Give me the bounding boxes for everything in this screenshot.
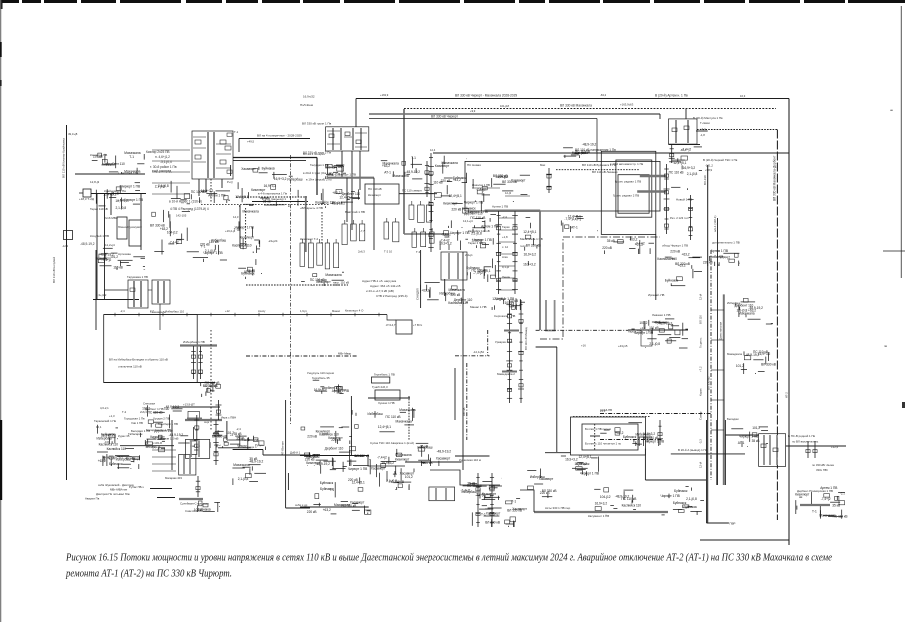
svg-text:220 кВ: 220 кВ — [331, 438, 341, 442]
feeder chain C6 — [664, 164, 670, 234]
svg-text:35 кВ: 35 кВ — [111, 192, 119, 196]
svg-text:Хив 1 ПВ: Хив 1 ПВ — [131, 421, 143, 425]
svg-text:16,9+3,2: 16,9+3,2 — [101, 434, 114, 438]
svg-text:Кизилюрт: Кизилюрт — [306, 461, 321, 465]
wire ctl long drop — [556, 347, 558, 452]
wire drop to Chiryurt bank — [355, 99, 357, 128]
svg-text:+9,9: +9,9 — [470, 109, 476, 113]
svg-text:Чирюрт 1 ПВ: Чирюрт 1 ПВ — [473, 238, 492, 242]
bus ctl 1 — [504, 330, 519, 332]
bus Izberbash — [180, 344, 217, 346]
svg-text:с. 12: с. 12 — [502, 245, 509, 249]
svg-text:Буйнакск: Буйнакск — [320, 487, 334, 491]
substation group lk rows2 — [154, 238, 227, 262]
bus Akusha — [644, 321, 646, 329]
feeder chain C2 — [428, 153, 434, 252]
substation group Kizlyar south — [150, 181, 190, 244]
wire ctl tie drop — [487, 330, 489, 356]
wire bl v1 — [226, 421, 228, 440]
svg-text:Т-2 10: Т-2 10 — [384, 250, 393, 254]
svg-text:220 кВ: 220 кВ — [602, 246, 612, 250]
substation bank S3 — [429, 487, 455, 501]
svg-text:Махачкала: Махачкала — [242, 438, 258, 442]
wire drop d — [140, 194, 142, 251]
svg-text:Гергебиль 1 ПВ: Гергебиль 1 ПВ — [374, 373, 395, 377]
svg-text:Кизилюрт: Кизилюрт — [395, 458, 410, 462]
svg-text:104-j12: 104-j12 — [600, 495, 611, 499]
svg-text:-11,2+j4: -11,2+j4 — [104, 243, 115, 247]
substation group ct left — [232, 210, 260, 253]
svg-text:220 кВ: 220 кВ — [325, 166, 335, 170]
svg-text:16,9+3,2: 16,9+3,2 — [115, 199, 128, 203]
svg-text:220 кВ: 220 кВ — [540, 491, 550, 495]
svg-text:+1,3: +1,3 — [109, 414, 115, 418]
svg-text:Леваши 1 ПВ: Леваши 1 ПВ — [652, 313, 670, 317]
svg-text:Дербент 110: Дербент 110 — [342, 192, 361, 196]
wire staircase bc2 — [430, 470, 500, 485]
svg-text:Курахская 110 м: Курахская 110 м — [459, 458, 481, 462]
svg-text:ПС 110 кВ: ПС 110 кВ — [205, 381, 220, 385]
svg-text:АТ-1: АТ-1 — [575, 218, 582, 222]
svg-text:Дербент 110: Дербент 110 — [325, 447, 344, 451]
node tick izb 3 — [186, 313, 188, 317]
wire rail k5 — [252, 201, 308, 203]
svg-text:Кизилюрт: Кизилюрт — [368, 193, 382, 197]
svg-text:Избербаш: Избербаш — [368, 412, 384, 416]
node tick izb 7 — [282, 313, 284, 317]
svg-text:2,1-j0,8: 2,1-j0,8 — [649, 342, 660, 346]
svg-text:Каспийск 110: Каспийск 110 — [107, 447, 127, 451]
svg-text:Махачкала: Махачкала — [449, 288, 465, 292]
node tick izb 6 — [258, 313, 260, 317]
svg-text:220 кВ: 220 кВ — [305, 458, 315, 462]
svg-text:Авария Пв: Авария Пв — [85, 497, 100, 501]
bus Chiryurt 110 — [328, 177, 374, 179]
box Khiv — [186, 439, 210, 458]
svg-text:+98,9: +98,9 — [705, 168, 713, 172]
substation bank small — [441, 252, 467, 280]
substation bank PS-V — [759, 434, 786, 467]
substation group bc 2 — [461, 478, 503, 500]
node tick izb 11 — [378, 313, 380, 317]
wire PVR tie — [707, 522, 729, 524]
svg-text:Чирюрт 1 ПВ: Чирюрт 1 ПВ — [661, 494, 680, 498]
wire lk stub 3 — [152, 182, 190, 184]
svg-text:Хасавюрт: Хасавюрт — [371, 467, 386, 471]
svg-text:Гоцатль: Гоцатль — [699, 337, 703, 348]
wire frame B path — [540, 237, 660, 339]
svg-text:ПС 110 кВ: ПС 110 кВ — [669, 171, 684, 175]
svg-text:В (20-й) Артем н. 1 Пв: В (20-й) Артем н. 1 Пв — [655, 94, 688, 98]
svg-text:Мах: Мах — [540, 163, 546, 167]
svg-text:Махачкала: Махачкала — [395, 453, 411, 457]
substation group C2 side — [433, 156, 467, 200]
substation group lk south2 — [191, 189, 230, 203]
svg-text:Кизилюрт Т-2: Кизилюрт Т-2 — [300, 237, 318, 241]
box frame F outer — [601, 151, 656, 234]
wire ct drop 2 — [444, 279, 446, 296]
svg-text:ВЛ 330 кВ: ВЛ 330 кВ — [485, 521, 500, 525]
wire drop to bank D 2 — [659, 114, 661, 119]
svg-text:12,4+j5,1: 12,4+j5,1 — [378, 425, 391, 429]
wire drop f — [171, 420, 173, 470]
wire frame F drop — [655, 234, 657, 300]
load feeder row 3 — [409, 201, 432, 223]
substation group mid — [325, 164, 346, 179]
transformer bars Khiv — [191, 441, 199, 457]
wire ctl tie — [455, 355, 490, 357]
wire bc rail 3 — [300, 506, 369, 508]
svg-text:-12,2: -12,2 — [62, 244, 69, 248]
bus Derbent — [185, 419, 222, 421]
svg-text:-7,4+j2: -7,4+j2 — [635, 242, 645, 246]
wire lk stub 1 — [152, 160, 190, 162]
svg-text:Буйнакск: Буйнакск — [674, 489, 688, 493]
svg-text:Хасавюрт: Хасавюрт — [512, 507, 527, 511]
svg-text:Хунзах 1 ПВ: Хунзах 1 ПВ — [378, 401, 395, 405]
svg-text:Кизилюрт 4 О: Кизилюрт 4 О — [345, 309, 364, 313]
wire drop e — [95, 250, 97, 330]
box substation S1 — [365, 184, 399, 204]
svg-text:12,8-j3: 12,8-j3 — [90, 180, 100, 184]
svg-text:-48,9-19,2: -48,9-19,2 — [745, 353, 760, 357]
substation group A east south — [561, 214, 598, 232]
svg-text:Хасавюрт: Хасавюрт — [486, 512, 501, 516]
svg-text:-24+j24: -24+j24 — [268, 239, 278, 243]
svg-text:ПзЛ-Жем: ПзЛ-Жем — [300, 103, 313, 107]
svg-text:-0,8: -0,8 — [104, 440, 109, 444]
box load L2 — [129, 220, 141, 246]
svg-text:Манас 1 ПВ: Манас 1 ПВ — [470, 305, 487, 309]
svg-text:Кизилюрт: Кизилюрт — [435, 164, 450, 168]
svg-text:Буйнакск: Буйнакск — [576, 462, 590, 466]
substation group bl extra — [104, 447, 140, 469]
substation group A south — [470, 214, 498, 248]
svg-text:-48,9-19,2: -48,9-19,2 — [437, 449, 452, 453]
svg-text:-7,4+j2: -7,4+j2 — [377, 456, 387, 460]
wire VL-330 third tie — [369, 113, 660, 115]
svg-text:110 кВ: 110 кВ — [433, 181, 443, 185]
svg-text:Дербент-Приморская 1 ПВ: Дербент-Приморская 1 ПВ — [797, 489, 833, 493]
wire bl rail 4 — [263, 454, 310, 456]
svg-text:Кизилюрт: Кизилюрт — [795, 493, 810, 497]
bus 330 link vertical — [403, 109, 405, 234]
substation group tE mid — [736, 350, 776, 374]
feeder chain C5b — [518, 300, 524, 403]
svg-text:ПС 110 кВ: ПС 110 кВ — [386, 415, 401, 419]
svg-text:Икра с ПВН: Икра с ПВН — [221, 416, 236, 420]
load feeder row 1 — [342, 220, 365, 245]
svg-text:Снегокая: Снегокая — [143, 402, 155, 406]
svg-text:Избербаш 110: Избербаш 110 — [165, 310, 185, 314]
svg-text:Артем 1 ПВ: Артем 1 ПВ — [481, 225, 498, 229]
svg-text:Курах 35: Курах 35 — [118, 434, 130, 438]
feeder chain C19 — [216, 400, 222, 420]
wire ct dash — [321, 212, 323, 245]
node tick izb 10 — [354, 313, 356, 317]
bus Primorsk — [800, 504, 830, 506]
svg-text:+63,2: +63,2 — [682, 253, 690, 257]
svg-text:+163,9: +163,9 — [380, 93, 389, 97]
svg-text:Сулейман-Стальская: Сулейман-Стальская — [180, 502, 209, 506]
substation group bc top-left — [301, 427, 352, 444]
svg-text:-7,4+j2: -7,4+j2 — [564, 217, 574, 221]
feeder chain C5 — [512, 211, 518, 294]
svg-text:ВЛ-330: ВЛ-330 — [703, 175, 707, 185]
wire trunk dash-dot — [710, 250, 712, 480]
svg-text:Ахты: Ахты — [214, 443, 221, 447]
svg-text:-7,7: -7,7 — [360, 229, 365, 233]
svg-text:Махачкала: Махачкала — [325, 273, 341, 277]
substation Chiryurt 330 bank — [326, 127, 369, 151]
wire Gunib drop 2 — [408, 396, 410, 440]
substation group Derbent — [145, 435, 165, 452]
bus corner path — [546, 300, 555, 331]
wire Gunib drop — [350, 396, 352, 455]
wire bl ticks 3 — [152, 470, 176, 472]
svg-text:Избербаш 1 ПВ: Избербаш 1 ПВ — [183, 340, 205, 344]
svg-text:ВЛ 330 кВ Махачкала-Дербент: ВЛ 330 кВ Махачкала-Дербент — [773, 155, 777, 201]
wire to Tarumovka — [105, 289, 129, 291]
svg-text:Т-3: Т-3 — [416, 250, 421, 254]
substation group bl mid2 — [232, 457, 266, 485]
svg-text:Ачису: Ачису — [258, 309, 266, 313]
substation group c-mid — [301, 272, 344, 286]
svg-text:220 кВ: 220 кВ — [452, 207, 462, 211]
feeder chain C17 — [813, 441, 817, 458]
svg-text:ВЛ 330 кВ: ВЛ 330 кВ — [355, 454, 370, 458]
substation group Khunzakh — [352, 408, 416, 432]
svg-text:Чирюрт 1 ПВ: Чирюрт 1 ПВ — [580, 472, 599, 476]
wire dashdot Levashi tie — [536, 329, 628, 331]
substation group br top — [600, 423, 664, 446]
bus Grozny A — [640, 175, 667, 177]
svg-text:Кизилюрт: Кизилюрт — [126, 457, 141, 461]
wire Levashi tie — [628, 329, 688, 331]
substation group left lower — [95, 248, 145, 270]
svg-text:21,6: 21,6 — [600, 409, 606, 413]
wire bl rail 6 — [150, 488, 172, 490]
svg-text:Чирюрт 1 ПВ: Чирюрт 1 ПВ — [450, 231, 469, 235]
wire bc rail 1 — [300, 455, 369, 457]
svg-text:+2,4: +2,4 — [700, 127, 706, 131]
svg-text:себя и др: себя и др — [295, 503, 308, 507]
box load L1 — [117, 217, 127, 239]
svg-text:35 кВ: 35 кВ — [420, 444, 428, 448]
svg-text:ВЛ на 4 поперечное - 2028-2029: ВЛ на 4 поперечное - 2028-2029 — [257, 133, 302, 137]
svg-text:Т-1: Т-1 — [511, 500, 516, 504]
svg-text:а/я-1 (118-1): а/я-1 (118-1) — [713, 216, 717, 232]
svg-text:+63,2: +63,2 — [748, 309, 756, 313]
svg-text:-2,4: -2,4 — [502, 215, 507, 219]
svg-text:МВт-МВА-ме: МВт-МВА-ме — [110, 488, 128, 492]
substation group Primorsk — [795, 486, 847, 519]
svg-text:9,1-j2: 9,1-j2 — [502, 265, 509, 269]
svg-text:16,3: 16,3 — [740, 94, 746, 98]
svg-text:ПВР: ПВР — [730, 522, 736, 526]
svg-text:+49,5: +49,5 — [247, 139, 255, 143]
svg-text:16,9+3,2: 16,9+3,2 — [382, 461, 395, 465]
wire drop b — [104, 194, 106, 301]
svg-text:12-j3: 12-j3 — [505, 191, 511, 195]
wire rail k1 drop — [238, 139, 240, 153]
svg-text:110 кВ: 110 кВ — [209, 240, 219, 244]
svg-text:ВЛ 330 кВ Чирюрт - Махачкала: ВЛ 330 кВ Чирюрт - Махачкала 2028-2029 — [455, 94, 517, 98]
svg-text:101,2: 101,2 — [142, 407, 150, 411]
substation group below bank — [421, 283, 473, 307]
box frame G — [104, 315, 198, 383]
svg-text:АТ-2: АТ-2 — [784, 392, 788, 398]
svg-text:Сергокала 1 ПВ: Сергокала 1 ПВ — [494, 314, 515, 318]
feeder chain C7 — [669, 144, 675, 163]
svg-text:Чирюрт 1 ПВ: Чирюрт 1 ПВ — [338, 173, 356, 177]
svg-text:Буйнакск: Буйнакск — [320, 481, 334, 485]
svg-text:+7,2: +7,2 — [699, 366, 703, 372]
svg-text:Т-1: Т-1 — [201, 244, 206, 248]
svg-text:В (20-й) Махтула 1 Пв: В (20-й) Махтула 1 Пв — [693, 116, 723, 120]
svg-text:16,9+3,2: 16,9+3,2 — [683, 166, 696, 170]
svg-text:Адрес: 364 об 142+15: Адрес: 364 об 142+15 — [370, 284, 401, 288]
svg-text:Тарумовка 1 ПВ: Тарумовка 1 ПВ — [127, 275, 148, 279]
substation group Levashi — [632, 319, 689, 348]
svg-text:Реч. 2 123 тол: Реч. 2 123 тол — [670, 216, 689, 220]
svg-text:Махачкала: Махачкала — [396, 420, 412, 424]
svg-text:Агач: Агач — [502, 255, 508, 259]
svg-text:-3,4+j1,2: -3,4+j1,2 — [104, 162, 116, 166]
wire c45 rung 0 — [499, 217, 515, 219]
svg-text:Артем 1 ПВ: Артем 1 ПВ — [492, 205, 508, 209]
substation group D lower — [703, 249, 740, 266]
substation group C5 side — [523, 218, 540, 267]
substation group D east2 — [669, 147, 702, 190]
feeder chain C18 — [194, 415, 200, 455]
wire bl trunk v — [285, 400, 287, 508]
wire dashed cross tie — [201, 204, 330, 206]
svg-text:220 кВ: 220 кВ — [307, 510, 317, 514]
svg-text:49,3+j8: 49,3+j8 — [68, 132, 78, 136]
svg-text:ВЛ 330 кВ Чирюрт: ВЛ 330 кВ Чирюрт — [431, 115, 458, 119]
svg-text:ВЛ 330 кВ: ВЛ 330 кВ — [675, 262, 690, 266]
wire Botlikh T bar — [590, 435, 600, 437]
substation group A-east — [235, 166, 303, 207]
svg-text:ПС 110 кВ: ПС 110 кВ — [368, 187, 382, 191]
substation group bl far2 — [97, 443, 134, 466]
svg-text:Тарки: Тарки — [502, 225, 510, 229]
svg-text:+7 Вт/ч: +7 Вт/ч — [413, 323, 423, 327]
feeder chain C9 — [191, 346, 196, 379]
scan edge left dark segment — [0, 420, 2, 500]
svg-text:Т-1: Т-1 — [129, 155, 134, 159]
wire trunk f — [716, 420, 718, 485]
svg-text:по 330 кВт da-ма: по 330 кВт da-ма — [812, 463, 834, 467]
svg-text:101,2: 101,2 — [505, 301, 513, 305]
wire lk b — [245, 208, 247, 247]
svg-text:Самур: Самур — [699, 411, 703, 420]
svg-text:Чирюрт 1 ПВ: Чирюрт 1 ПВ — [348, 467, 367, 471]
svg-text:ВЛ 330 кВ: ВЛ 330 кВ — [502, 180, 517, 184]
wire c45 rung 3 — [499, 253, 515, 255]
feeder chain C8 — [687, 195, 693, 240]
svg-text:12-j4: 12-j4 — [699, 293, 703, 300]
wire rail k4 — [236, 196, 307, 198]
scan edge top — [0, 0, 905, 9]
svg-text:Каспийск 110: Каспийск 110 — [657, 257, 677, 261]
wire trunk Chirkey south b — [706, 420, 708, 523]
svg-text:Дагестанская: Дагестанская — [719, 322, 723, 340]
wire E tie — [645, 479, 706, 481]
substation group left-top — [92, 151, 145, 174]
wire Kizlyar drop c — [221, 179, 223, 188]
svg-text:4,6-2,1: 4,6-2,1 — [100, 406, 109, 410]
svg-text:Грозн. радиал 2 ПВ: Грозн. радиал 2 ПВ — [613, 194, 639, 198]
wire frame G bottom — [104, 382, 216, 384]
svg-text:2,1-j0,8: 2,1-j0,8 — [687, 172, 698, 176]
svg-text:Ботлих 1 ПВ перем: Ботлих 1 ПВ перем — [585, 427, 611, 431]
svg-text:В (20-й) Черкей ГЭС 1 Пв: В (20-й) Черкей ГЭС 1 Пв — [703, 158, 738, 162]
svg-text:2,1-j0,8: 2,1-j0,8 — [116, 206, 127, 210]
svg-text:Кизилюрт: Кизилюрт — [316, 430, 331, 434]
svg-text:Кизилюрт: Кизилюрт — [251, 188, 266, 192]
wire bl rail 5 — [286, 507, 310, 509]
wire trunk rung 4 — [711, 429, 724, 431]
wire bc rail 4 — [545, 452, 571, 454]
svg-text:Махачкала: Махачкала — [233, 463, 249, 467]
feeder chain C16 — [806, 441, 810, 458]
svg-text:Уркарах: Уркарах — [495, 340, 506, 344]
svg-text:Т-связи: Т-связи — [700, 121, 710, 125]
svg-text:+63,2: +63,2 — [421, 289, 429, 293]
wire edge stub — [883, 250, 905, 252]
svg-text:Магарам 403: Магарам 403 — [165, 476, 182, 480]
wire Chiryurt feeder a — [341, 151, 343, 178]
svg-text:+2,2: +2,2 — [640, 326, 646, 330]
box Gunib 2 — [375, 390, 400, 400]
svg-text:ПС 110 кВ: ПС 110 кВ — [389, 480, 404, 484]
wire drop c — [110, 194, 112, 216]
svg-text:Курах: Курах — [699, 388, 703, 396]
svg-text:35 кВ: 35 кВ — [832, 504, 840, 508]
substation group Kasumkent — [472, 499, 527, 527]
svg-text:12,4+j5,1: 12,4+j5,1 — [449, 194, 462, 198]
svg-text:ВЛ 330 кВ грозн 1 Пв: ВЛ 330 кВ грозн 1 Пв — [302, 122, 332, 126]
substation group C bottom — [492, 297, 525, 310]
svg-text:12,4+j5,1: 12,4+j5,1 — [477, 269, 490, 273]
wire ct rail 1 — [246, 284, 348, 286]
svg-text:16,9+3,2: 16,9+3,2 — [495, 175, 508, 179]
substation group bc mid — [315, 458, 367, 499]
svg-text:Каспийск 110: Каспийск 110 — [232, 243, 252, 247]
wire right trunk A — [788, 99, 790, 546]
svg-text:не: не — [890, 108, 894, 112]
svg-text:12,4+j5,1: 12,4+j5,1 — [523, 230, 536, 234]
wire bl corner — [262, 450, 264, 456]
substation group center-b — [443, 201, 488, 228]
svg-text:Махачкала: Махачкала — [334, 503, 350, 507]
svg-text:Чирюрт 1 ПВ: Чирюрт 1 ПВ — [464, 201, 483, 205]
svg-text:ПС 110 кВ: ПС 110 кВ — [310, 278, 325, 282]
wire trunk g — [724, 420, 726, 485]
wire Kurakh tie — [455, 455, 490, 457]
svg-text:ДоВ-й 1: ДоВ-й 1 — [290, 451, 301, 455]
svg-text:-48,9-19,2: -48,9-19,2 — [169, 433, 184, 437]
svg-text:-101,2: -101,2 — [705, 164, 713, 168]
wire staircase bc3 — [520, 490, 534, 512]
wire drop to bank D — [685, 109, 687, 119]
svg-text:ещё распред: ещё распред — [152, 169, 171, 173]
wire c45 rung 2 — [499, 241, 515, 243]
wire Chiryurt feeder b — [351, 151, 353, 230]
svg-text:Касумкент 1 ПВ: Касумкент 1 ПВ — [588, 514, 609, 518]
